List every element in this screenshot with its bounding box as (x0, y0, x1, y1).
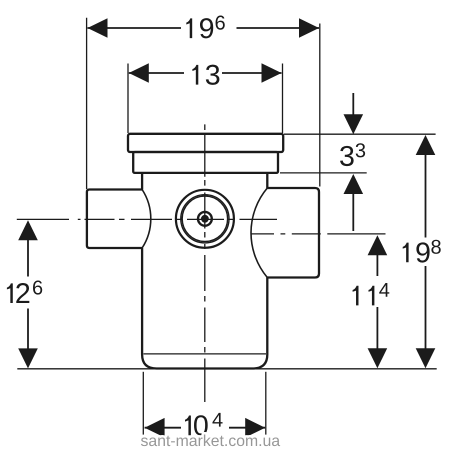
left port / body intersection arc (142, 190, 151, 249)
horizontal centerline (left port / cleanout axis) (78, 218, 277, 220)
center dot (201, 215, 209, 223)
dimension line 3.3 tails (352, 93, 354, 115)
arrowhead 19.6 left (88, 18, 108, 38)
right port fill (251, 188, 319, 278)
arrowhead 12.6 top (up) (18, 220, 38, 240)
dimension line 11.4 tails (376, 255, 378, 276)
body (142, 173, 267, 369)
label 13 (192, 65, 219, 85)
arrowhead 19.8 top (up) (416, 135, 436, 155)
right port / body intersection arc (251, 188, 267, 278)
extension line 19.6 right (319, 24, 321, 187)
label 12.6 (7, 280, 42, 303)
left port fill (87, 190, 151, 249)
dimension line 19.6 (88, 27, 182, 29)
cleanout cap circles (176, 190, 234, 248)
label 3.3 (340, 143, 365, 166)
right port centerline (251, 233, 385, 235)
dimension line 13 (129, 72, 184, 74)
flange lower tier (133, 152, 278, 173)
fixture outline (87, 134, 319, 369)
extension line 19.6 left (86, 18, 88, 189)
arrowhead 19.6 right (299, 18, 319, 38)
reference line y173 (flange bottom, for 3.3) (280, 172, 367, 174)
body fill (142, 173, 267, 369)
arrowhead 3.3 top (down) (344, 114, 364, 134)
label 10.4 (185, 413, 223, 436)
label 11.4 (353, 283, 390, 305)
dimension line 19.8 tails (425, 155, 427, 238)
arrowhead 13 left (129, 63, 149, 83)
arrowhead 10.4 left (145, 418, 165, 438)
vertical centerline of fixture (204, 124, 206, 402)
ring outer (181, 195, 229, 243)
outer circle (176, 190, 234, 248)
ring inner (182, 196, 227, 241)
small hub circle (198, 212, 212, 226)
flange fill (128, 134, 283, 152)
reference line left port axis (for 12.6) (17, 218, 69, 220)
label 19.6 (186, 16, 224, 39)
arrowhead 11.4 top (up) (368, 235, 388, 255)
extension line 10.4 right (265, 372, 267, 435)
extension line 10.4 left (142, 372, 144, 435)
dimension line 12.6 tails (27, 240, 29, 277)
arrowhead 12.6 bottom (down) (18, 348, 38, 368)
arrowhead 3.3 bottom (up) (344, 174, 364, 194)
extension line 13 left (127, 64, 129, 134)
arrowhead 10.4 right (245, 418, 265, 438)
extension line 13 right (282, 64, 284, 134)
watermark sant-market.com.ua (141, 435, 280, 447)
label 19.8 (403, 240, 441, 263)
dimension line 10.4 (145, 427, 181, 429)
left port (87, 190, 142, 249)
fixture white fills (87, 134, 319, 369)
arrowhead 13 right (262, 63, 282, 83)
flange top collar (128, 134, 283, 152)
right port (267, 188, 319, 278)
body bottom seam line (144, 353, 267, 355)
arrowhead 19.8 bottom (down) (416, 348, 436, 368)
bottom reference line (17, 368, 436, 370)
arrowhead 11.4 bottom (down) (368, 348, 388, 368)
top reference line y134 (flange top, for 3.3 and 19.8) (284, 133, 436, 135)
